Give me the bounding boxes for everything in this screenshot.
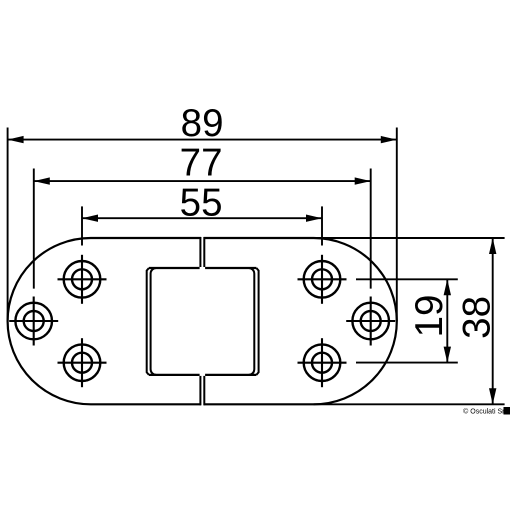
svg-text:19: 19 [408, 295, 451, 338]
svg-text:38: 38 [455, 296, 498, 339]
svg-text:77: 77 [180, 141, 223, 184]
svg-text:© Osculati Sr: © Osculati Sr [463, 407, 505, 415]
svg-text:89: 89 [181, 102, 224, 145]
svg-text:55: 55 [180, 181, 223, 224]
